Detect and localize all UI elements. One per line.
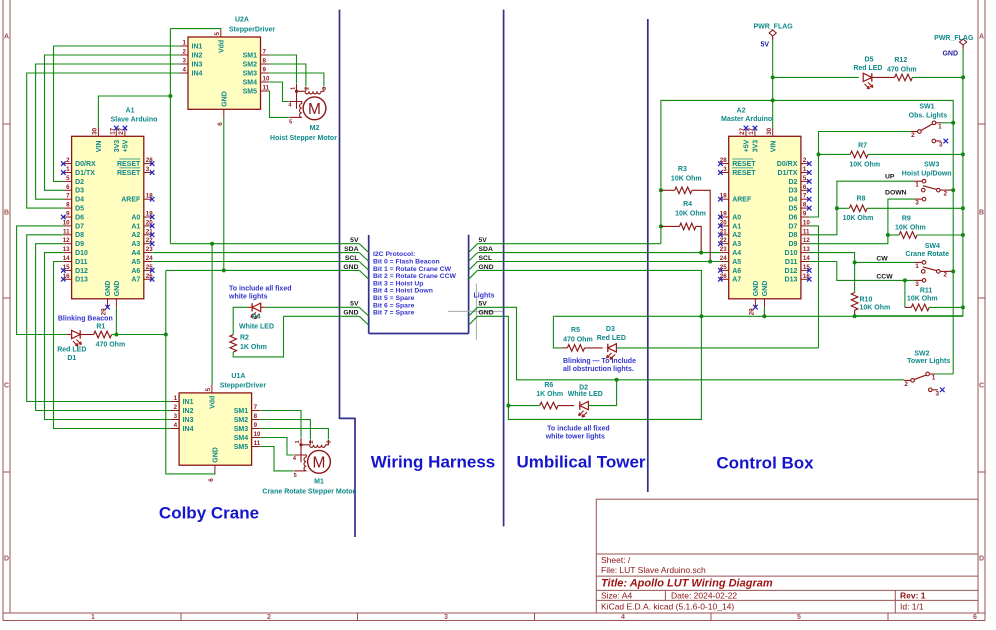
svg-text:3: 3: [915, 200, 919, 207]
resistor R8 10K Ohm: [837, 205, 965, 212]
wire UP net: [809, 181, 915, 235]
label R12: [894, 57, 907, 64]
wire SM5-M2: [269, 91, 289, 117]
svg-text:11: 11: [803, 228, 810, 235]
resistor R4 10K Ohm: [661, 223, 701, 253]
label To include all fixed white lights: [228, 286, 292, 301]
svg-text:CCW: CCW: [876, 274, 893, 281]
wire SW1 pin1 to rail: [942, 121, 956, 125]
resistor R3 10K Ohm: [661, 187, 710, 262]
svg-text:Bit 6 = Spare: Bit 6 = Spare: [373, 302, 415, 309]
wire A5-SCL: [152, 261, 359, 263]
switch SW4 crane rotate: [905, 243, 951, 288]
wire D4 to 5V label: [265, 306, 360, 308]
svg-text:R8: R8: [857, 196, 866, 203]
svg-text:7: 7: [803, 193, 807, 200]
wire D11-U1A IN4: [54, 262, 171, 429]
svg-text:D13: D13: [75, 277, 88, 284]
svg-text:A1: A1: [131, 223, 140, 230]
svg-text:A5: A5: [131, 259, 140, 266]
label 470 Ohm R5: [563, 336, 593, 343]
svg-text:D12: D12: [75, 268, 88, 275]
svg-text:A3: A3: [131, 241, 140, 248]
svg-text:Bit 1 = Rotate Crane CW: Bit 1 = Rotate Crane CW: [373, 266, 452, 273]
svg-text:8: 8: [803, 202, 807, 209]
svg-text:M2: M2: [310, 125, 320, 132]
label 10K Ohm R9: [895, 224, 926, 231]
svg-text:7: 7: [254, 404, 258, 411]
label R6: [544, 382, 553, 389]
svg-text:D3: D3: [75, 188, 84, 195]
wire R1 junction: [116, 334, 165, 336]
wire DOWN net: [809, 199, 915, 244]
label GND harness left: [343, 264, 368, 279]
svg-text:Master Arduino: Master Arduino: [721, 116, 772, 123]
svg-text:2: 2: [803, 157, 807, 164]
svg-text:SW2: SW2: [914, 351, 929, 358]
LED D4 white: [248, 303, 265, 319]
svg-text:10K Ohm: 10K Ohm: [860, 305, 891, 312]
IC U2A stepper driver: [180, 17, 276, 126]
svg-text:8: 8: [254, 413, 258, 420]
svg-text:Wiring Harness: Wiring Harness: [371, 453, 496, 472]
label 5V lights right: [469, 301, 488, 316]
label R9: [902, 216, 911, 223]
label 10K Ohm R8: [843, 215, 874, 222]
label CW: [876, 256, 888, 263]
svg-text:U1A: U1A: [231, 373, 245, 380]
svg-text:A4: A4: [732, 250, 741, 257]
wire D10-U1A IN3: [45, 253, 171, 420]
svg-text:RESET: RESET: [117, 161, 141, 168]
label 5V harness left: [350, 237, 369, 252]
svg-text:29: 29: [749, 308, 756, 315]
svg-text:5V: 5V: [479, 301, 488, 308]
label 1K Ohm R6: [536, 391, 563, 398]
svg-text:R9: R9: [902, 216, 911, 223]
LED D3 red: [607, 344, 617, 360]
label White LED: [239, 324, 274, 331]
wire U2A Vdd feed: [170, 28, 220, 30]
svg-text:6: 6: [66, 184, 70, 191]
wire D3 to control: [616, 347, 818, 349]
svg-text:U2A: U2A: [235, 17, 249, 24]
svg-text:VIN: VIN: [96, 141, 103, 153]
resistor R5 470 Ohm: [563, 345, 603, 352]
label 5V lights left: [350, 301, 369, 316]
crosshair marker: [448, 284, 503, 341]
svg-text:Bit 2 = Rotate Crane CCW: Bit 2 = Rotate Crane CCW: [373, 273, 456, 280]
wire D8-U1A IN1: [27, 235, 171, 402]
svg-text:M1: M1: [314, 479, 324, 486]
svg-text:Id: 1/1: Id: 1/1: [900, 601, 924, 611]
svg-text:A0: A0: [732, 214, 741, 221]
node D2 5V junction: [615, 378, 619, 382]
wire D9-U1A IN2: [36, 244, 171, 411]
svg-text:1K Ohm: 1K Ohm: [536, 391, 563, 398]
wire 5V flag down: [772, 40, 774, 100]
node lights GND junction: [506, 404, 510, 408]
svg-text:I2C Protocol:: I2C Protocol:: [373, 251, 415, 258]
node R8 junction: [835, 206, 839, 210]
wire GND row to control: [478, 270, 702, 316]
svg-text:Red LED: Red LED: [57, 346, 86, 353]
svg-text:SW3: SW3: [924, 162, 939, 169]
svg-text:5: 5: [803, 175, 807, 182]
svg-text:A2: A2: [732, 232, 741, 239]
svg-text:RESET: RESET: [117, 170, 141, 177]
resistor R2 1K Ohm: [230, 335, 237, 352]
svg-text:2: 2: [911, 132, 915, 139]
section title Umbilical Tower: [516, 453, 645, 472]
svg-text:1: 1: [66, 166, 70, 173]
svg-text:Rev: 1: Rev: 1: [900, 591, 926, 601]
svg-text:StepperDriver: StepperDriver: [220, 383, 267, 390]
svg-text:R12: R12: [894, 57, 907, 64]
svg-text:M: M: [313, 455, 326, 472]
section title Colby Crane: [159, 504, 259, 523]
wire GND flag down: [962, 49, 964, 77]
svg-text:IN3: IN3: [192, 61, 203, 68]
svg-text:D1/TX: D1/TX: [778, 170, 798, 177]
svg-text:B: B: [4, 210, 9, 217]
svg-text:D5: D5: [865, 56, 874, 63]
svg-text:R4: R4: [683, 201, 692, 208]
svg-text:SDA: SDA: [479, 246, 493, 253]
svg-text:9: 9: [263, 67, 267, 74]
svg-text:1: 1: [915, 182, 919, 189]
svg-text:2: 2: [309, 440, 315, 443]
svg-text:11: 11: [254, 440, 261, 447]
svg-text:white lights: white lights: [228, 293, 268, 300]
svg-text:R6: R6: [544, 382, 553, 389]
label R10: [860, 297, 873, 304]
svg-text:2: 2: [267, 614, 271, 621]
svg-text:2: 2: [304, 87, 310, 90]
svg-text:UP: UP: [885, 173, 895, 180]
svg-text:KiCad E.D.A. kicad (5.1.6-0-1: KiCad E.D.A. kicad (5.1.6-0-10_14): [601, 601, 734, 611]
wire D5-IN4: [27, 73, 180, 208]
svg-text:A7: A7: [732, 277, 741, 284]
svg-text:Lights: Lights: [474, 292, 495, 299]
svg-text:Hoist Stepper Motor: Hoist Stepper Motor: [270, 135, 337, 142]
label D4: [252, 314, 261, 321]
svg-text:10: 10: [254, 431, 261, 438]
svg-text:Hoist Up/Down: Hoist Up/Down: [902, 171, 952, 178]
svg-text:+5V: +5V: [744, 139, 751, 152]
node 5V-VIN junction: [168, 94, 172, 98]
svg-text:5V: 5V: [350, 301, 359, 308]
svg-text:To include all fixed: To include all fixed: [229, 286, 292, 293]
switch SW2 tower lights: [904, 351, 951, 398]
svg-text:D3: D3: [606, 326, 615, 333]
svg-text:3: 3: [322, 87, 328, 90]
label CCW: [876, 274, 893, 281]
svg-text:GND: GND: [114, 281, 121, 297]
label D5: [865, 56, 874, 63]
svg-text:3: 3: [174, 413, 178, 420]
svg-text:R3: R3: [678, 166, 687, 173]
svg-text:A6: A6: [131, 268, 140, 275]
label R11: [920, 287, 933, 294]
wire R2 to GND row: [233, 316, 283, 357]
switch SW3 hoist up/down: [902, 162, 952, 207]
svg-text:PWR_FLAG: PWR_FLAG: [934, 35, 974, 42]
svg-text:D10: D10: [785, 250, 798, 257]
svg-text:A4: A4: [131, 250, 140, 257]
svg-text:A3: A3: [732, 241, 741, 248]
svg-text:Crane Rotate: Crane Rotate: [905, 251, 949, 258]
svg-text:1: 1: [183, 40, 187, 47]
svg-text:SM3: SM3: [243, 70, 258, 77]
svg-text:IN4: IN4: [192, 70, 203, 77]
harness/umbilical boundary line: [503, 10, 505, 527]
svg-text:3: 3: [146, 166, 150, 173]
svg-text:D2: D2: [75, 179, 84, 186]
svg-text:1: 1: [291, 87, 297, 90]
svg-text:A7: A7: [131, 277, 140, 284]
svg-text:GND: GND: [762, 281, 769, 297]
svg-text:D0/RX: D0/RX: [75, 161, 96, 168]
svg-text:2: 2: [944, 190, 948, 197]
wire control GND row: [553, 315, 963, 317]
svg-text:Size: A4: Size: A4: [601, 591, 632, 601]
svg-text:A2: A2: [131, 232, 140, 239]
label D2: [579, 384, 588, 391]
svg-text:10K Ohm: 10K Ohm: [907, 296, 938, 303]
svg-text:9: 9: [66, 211, 70, 218]
svg-text:1K Ohm: 1K Ohm: [240, 344, 267, 351]
node R12 GND junction: [961, 75, 965, 79]
svg-text:3: 3: [444, 614, 448, 621]
label R3: [678, 166, 687, 173]
svg-text:C: C: [4, 383, 9, 390]
svg-text:D11: D11: [785, 259, 798, 266]
resistor R9 10K Ohm: [888, 232, 965, 239]
svg-text:D3: D3: [788, 188, 797, 195]
IC U1A stepper driver: [171, 373, 267, 482]
svg-text:GND: GND: [942, 50, 958, 57]
svg-text:D0/RX: D0/RX: [777, 161, 798, 168]
label DOWN: [885, 190, 907, 197]
resistor R7 10K Ohm: [819, 151, 965, 158]
svg-text:DOWN: DOWN: [885, 190, 907, 197]
svg-text:10K Ohm: 10K Ohm: [671, 175, 702, 182]
wire D5 feed: [773, 76, 859, 78]
svg-text:SM2: SM2: [234, 417, 249, 424]
svg-text:5: 5: [797, 614, 801, 621]
svg-text:3: 3: [939, 142, 943, 149]
wire lights 5V right: [478, 307, 904, 380]
svg-text:2: 2: [944, 272, 948, 279]
svg-text:9: 9: [254, 422, 258, 429]
wire D10 CW net: [809, 253, 915, 263]
svg-text:Red LED: Red LED: [597, 335, 626, 342]
wire SW1 pin2 net: [809, 132, 911, 218]
label White LED D2: [568, 391, 603, 398]
svg-text:SM1: SM1: [243, 52, 258, 59]
svg-text:10K Ohm: 10K Ohm: [843, 215, 874, 222]
svg-text:A: A: [4, 34, 9, 41]
svg-text:5: 5: [66, 175, 70, 182]
svg-text:3: 3: [936, 390, 940, 397]
svg-text:Colby Crane: Colby Crane: [159, 504, 259, 523]
svg-text:7: 7: [263, 49, 267, 56]
node A2 GND junction: [762, 314, 766, 318]
svg-text:SDA: SDA: [344, 246, 358, 253]
svg-text:Blinking Beacon: Blinking Beacon: [58, 315, 113, 322]
wire R11 riser: [904, 280, 906, 307]
node VIN junction: [771, 98, 775, 102]
svg-text:SCL: SCL: [345, 255, 359, 262]
svg-text:CW: CW: [876, 256, 888, 263]
svg-text:SM5: SM5: [234, 444, 249, 451]
svg-text:D4: D4: [75, 197, 84, 204]
resistor R1 470 Ohm: [94, 331, 117, 338]
svg-text:A0: A0: [131, 214, 140, 221]
IC A1 Slave Arduino: [61, 107, 157, 315]
resistor R11 10K Ohm: [905, 304, 965, 311]
wire SCL row to control: [478, 261, 721, 263]
svg-text:Slave Arduino: Slave Arduino: [111, 117, 158, 124]
svg-text:SM2: SM2: [243, 61, 258, 68]
power flag PWR_FLAG GND: [934, 35, 974, 57]
svg-text:D: D: [4, 556, 9, 563]
svg-text:A: A: [979, 34, 984, 41]
node GND riser junction: [699, 314, 703, 318]
svg-text:10K Ohm: 10K Ohm: [675, 210, 706, 217]
svg-text:D8: D8: [788, 232, 797, 239]
svg-text:Tower Lights: Tower Lights: [907, 358, 950, 365]
wire D3-IN2: [45, 55, 180, 190]
wire D11 CCW net: [809, 262, 915, 281]
wire SM2-M2: [269, 64, 306, 86]
LED D2 white: [579, 401, 589, 417]
svg-text:D13: D13: [785, 277, 798, 284]
svg-text:30: 30: [92, 127, 99, 134]
wire SM4-M1: [260, 438, 293, 456]
svg-text:29: 29: [101, 308, 108, 315]
svg-text:6: 6: [208, 478, 215, 482]
svg-text:R2: R2: [240, 335, 249, 342]
svg-text:D4: D4: [252, 314, 261, 321]
svg-text:SW4: SW4: [925, 243, 940, 250]
label 470 Ohm R12: [887, 67, 917, 74]
svg-text:4: 4: [183, 67, 187, 74]
svg-text:D7: D7: [788, 223, 797, 230]
svg-text:1: 1: [174, 395, 178, 402]
svg-text:GND: GND: [105, 281, 112, 297]
wire 5V spine: [661, 100, 953, 374]
svg-text:1: 1: [803, 166, 807, 173]
svg-text:StepperDriver: StepperDriver: [229, 26, 276, 33]
label 10K Ohm R3: [671, 175, 702, 182]
svg-text:D: D: [979, 556, 984, 563]
svg-text:6: 6: [973, 614, 977, 621]
svg-text:IN1: IN1: [183, 399, 194, 406]
label R1: [96, 323, 105, 330]
wire GND to U1A: [166, 335, 215, 474]
svg-text:D4: D4: [788, 197, 797, 204]
umbilical/control boundary line: [647, 19, 649, 492]
svg-text:13: 13: [63, 246, 70, 253]
svg-text:A6: A6: [732, 268, 741, 275]
svg-text:D10: D10: [75, 250, 88, 257]
svg-text:5: 5: [214, 32, 221, 36]
label R4: [683, 201, 692, 208]
svg-text:IN2: IN2: [183, 408, 194, 415]
svg-text:R11: R11: [920, 287, 933, 294]
wire A1 GND down: [115, 307, 117, 334]
node R4 SDA junction: [699, 251, 703, 255]
svg-text:5V: 5V: [350, 237, 359, 244]
svg-text:GND: GND: [753, 281, 760, 297]
svg-text:D7: D7: [75, 223, 84, 230]
svg-text:2: 2: [66, 157, 70, 164]
svg-text:AREF: AREF: [121, 197, 141, 204]
node R3 junction: [659, 188, 663, 192]
wire D4-IN3: [36, 64, 180, 199]
label 10K Ohm R11: [907, 296, 938, 303]
svg-text:11: 11: [263, 85, 270, 92]
svg-text:SM4: SM4: [243, 79, 258, 86]
resistor R6 1K Ohm: [508, 402, 574, 409]
wire SW2 pin1 to rail: [935, 373, 953, 375]
label blinking obstruction: [563, 358, 636, 373]
svg-text:23: 23: [720, 246, 727, 253]
svg-text:Umbilical Tower: Umbilical Tower: [516, 453, 645, 472]
resistor R12 470 Ohm: [895, 74, 963, 81]
power flag PWR_FLAG 5V: [753, 24, 793, 49]
svg-text:Bit 7 = Spare: Bit 7 = Spare: [373, 310, 415, 317]
svg-text:Bit 5 = Spare: Bit 5 = Spare: [373, 295, 415, 302]
label Blinking Beacon: [58, 315, 113, 322]
wire R10 riser: [854, 262, 856, 292]
label SCL harness left: [345, 255, 369, 270]
wire lights GND row left: [284, 315, 360, 317]
svg-text:14: 14: [63, 255, 70, 262]
wire GND rail: [855, 77, 963, 315]
svg-text:SM3: SM3: [234, 426, 249, 433]
svg-text:D9: D9: [75, 241, 84, 248]
svg-text:SM4: SM4: [234, 435, 249, 442]
svg-text:1: 1: [932, 375, 936, 382]
resistor R10 10K Ohm: [851, 293, 858, 319]
label Red LED D1: [57, 346, 86, 361]
svg-text:1: 1: [938, 123, 942, 130]
svg-text:5V: 5V: [760, 41, 769, 48]
svg-text:D6: D6: [75, 214, 84, 221]
svg-text:8: 8: [66, 202, 70, 209]
wire 5V row to control: [478, 243, 661, 245]
label Red LED D3: [597, 335, 626, 342]
svg-text:RESET: RESET: [732, 161, 756, 168]
svg-text:Bit 0 = Flash Beacon: Bit 0 = Flash Beacon: [373, 259, 440, 266]
svg-text:Sheet: /: Sheet: /: [601, 555, 631, 565]
svg-text:Date: 2024-02-22: Date: 2024-02-22: [671, 591, 737, 601]
motor M1 crane rotate stepper motor: [262, 438, 355, 496]
wiring harness left boundary line: [340, 10, 356, 537]
wire GND row to harness: [166, 269, 359, 271]
svg-text:3: 3: [723, 166, 727, 173]
wire SM4-M2: [269, 82, 289, 102]
wire U1A Vdd feed: [211, 244, 213, 385]
svg-text:Vdd: Vdd: [210, 396, 217, 409]
svg-text:2: 2: [904, 381, 908, 388]
wire D7-beacon: [17, 226, 68, 335]
wire SDA row to control: [478, 252, 721, 254]
svg-text:Obs. Lights: Obs. Lights: [909, 113, 948, 120]
